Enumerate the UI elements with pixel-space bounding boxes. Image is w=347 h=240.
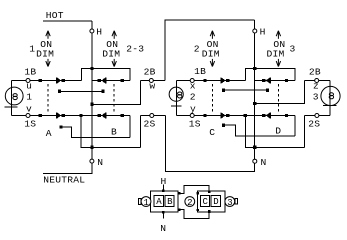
svg-text:2: 2 <box>187 198 193 208</box>
arrow ON up (switch B) <box>112 31 116 39</box>
diode D-B1 wire <box>92 80 130 82</box>
node switch B contact bottom-left <box>98 114 101 117</box>
wire 1S (right) <box>176 114 294 116</box>
node switch B contact bottom-right <box>121 114 124 117</box>
svg-text:DIM: DIM <box>36 49 54 60</box>
diode D-B1 <box>101 78 105 84</box>
node switch A input bottom <box>39 114 42 117</box>
node switch A contact bottom <box>62 114 65 117</box>
switch B link dashed <box>113 84 115 113</box>
wire lower link (left) <box>92 81 140 105</box>
wire switch C bottom curl <box>223 125 294 136</box>
svg-text:H: H <box>96 27 102 38</box>
svg-text:1: 1 <box>26 91 32 102</box>
svg-text:DIM: DIM <box>267 49 285 60</box>
terminal H (left) <box>90 29 94 33</box>
diode D-C1 <box>220 77 221 83</box>
diode D-B2 <box>101 113 105 119</box>
wire lamp I2 vertical <box>175 81 177 116</box>
arrow DIM down (switch B) <box>112 59 116 67</box>
node switch D contact bottom-left <box>262 114 265 117</box>
node switch B common <box>101 90 104 93</box>
wire 1B up-link (right) <box>246 69 295 81</box>
terminal 2B (left) <box>149 79 153 83</box>
diode D-A1 <box>56 77 57 83</box>
lamp I3 circle <box>321 86 340 105</box>
node switch D contact bottom-right <box>285 114 288 117</box>
svg-text:3: 3 <box>227 198 233 208</box>
switch C link dashed <box>211 84 213 113</box>
node switch D contact top-left <box>262 79 265 82</box>
node junction hot/lower link (left) <box>90 103 93 106</box>
arrow DIM down (switch A) <box>46 59 50 67</box>
terminal N (left) <box>90 159 94 163</box>
node switch D contact top-right <box>285 79 288 82</box>
connector cell C <box>200 195 209 206</box>
connector cell D <box>211 195 220 206</box>
wire connector bottom link <box>178 208 181 211</box>
svg-text:N: N <box>160 223 166 234</box>
terminal 2B (right) <box>315 79 319 83</box>
svg-text:B: B <box>167 197 173 207</box>
node switch D common <box>266 89 269 92</box>
wire hot vertical (left) <box>91 33 93 159</box>
lamp I1 circle <box>5 87 23 105</box>
node switch C bottom <box>222 124 225 127</box>
svg-text:H: H <box>260 27 266 38</box>
svg-text:2B: 2B <box>144 67 156 78</box>
wire 2S (right) <box>305 114 330 116</box>
svg-text:N: N <box>97 157 103 168</box>
svg-text:1S: 1S <box>24 119 36 130</box>
wire 2B (right) <box>305 80 330 82</box>
svg-text:2B: 2B <box>309 66 321 77</box>
svg-text:A: A <box>46 128 52 139</box>
terminal 2S (left) <box>150 113 154 117</box>
switch D link dashed <box>277 84 279 113</box>
terminal H (right) <box>253 29 257 33</box>
diode D-D1 wire <box>255 80 295 82</box>
node junction hot/bottom link (left) <box>90 146 93 149</box>
arrow DIM down (switch D) <box>276 59 280 67</box>
svg-text:3: 3 <box>290 44 296 55</box>
node junction hot/upper link (right) <box>253 67 256 70</box>
wire H tick (connector) <box>162 185 164 192</box>
svg-text:D: D <box>213 197 219 207</box>
node switch C common <box>222 89 225 92</box>
wire 2B to top feed <box>165 20 255 81</box>
lamp I2 circle <box>169 87 183 101</box>
connector socket 2 <box>185 197 195 207</box>
wire 1S to bottom link (right) <box>245 115 304 147</box>
svg-text:3: 3 <box>313 91 319 102</box>
svg-text:z: z <box>313 81 319 92</box>
wire 1S (left) <box>12 114 131 116</box>
node switch A common <box>58 90 61 93</box>
wire 2S left vertical (right) <box>304 115 306 147</box>
connector module box 2 (C D) <box>198 191 225 212</box>
connector socket 3 tab <box>235 198 237 204</box>
wire 1B (right) <box>176 80 245 82</box>
connector socket 1 <box>141 197 151 207</box>
node switch A bottom <box>59 125 62 128</box>
wire lower link (right) <box>255 81 305 104</box>
svg-text:C: C <box>203 197 209 207</box>
connector cell A <box>154 195 163 206</box>
svg-text:2-3: 2-3 <box>126 44 144 55</box>
terminal 1S (right) <box>190 113 194 117</box>
wire 1B (left) <box>12 80 82 82</box>
svg-text:w: w <box>149 81 155 92</box>
wire 2S return to neutral <box>166 115 255 171</box>
connector socket 1 tab <box>139 199 141 205</box>
svg-text:1: 1 <box>144 198 150 208</box>
svg-text:v: v <box>26 104 32 115</box>
node switch C input <box>203 79 206 82</box>
wire lamp I1 vertical <box>11 81 13 116</box>
wire 1S to bottom link (left) <box>81 115 141 147</box>
arrow ON up (switch C) <box>210 31 214 39</box>
wire middle bar (left) <box>60 90 104 92</box>
svg-text:B: B <box>111 127 117 138</box>
terminal 1B (right) <box>190 79 194 83</box>
svg-text:D: D <box>275 125 281 136</box>
svg-text:2S: 2S <box>144 119 156 130</box>
wire N to neutral bus <box>43 163 92 173</box>
terminal 1S (left) <box>26 113 30 117</box>
node switch B contact top-left <box>98 79 101 82</box>
svg-text:1B: 1B <box>24 67 36 78</box>
connector module box 1 (A B) <box>150 191 177 212</box>
node junction 1S/bottom link (left) <box>79 114 82 117</box>
node junction 1S/bottom link (right) <box>244 114 247 117</box>
node switch C input bottom <box>203 114 206 117</box>
arrow ON up (switch D) <box>276 31 280 39</box>
svg-text:1B: 1B <box>194 66 206 77</box>
lamp I1 base <box>5 106 18 108</box>
svg-text:N: N <box>261 157 267 168</box>
arrow ON up (switch A) <box>46 31 50 39</box>
svg-text:1: 1 <box>29 44 35 55</box>
wire hot vertical (right) <box>254 33 256 159</box>
node junction hot/bottom link (right) <box>253 146 256 149</box>
wire 1B up-link (left) <box>82 69 131 81</box>
svg-text:DIM: DIM <box>102 49 120 60</box>
svg-text:A: A <box>156 197 162 207</box>
diode D-D2 <box>266 113 270 119</box>
connector module box 2 left nubs <box>196 192 198 194</box>
wire 2B (left) <box>141 80 166 82</box>
wire switch A bottom curl <box>61 127 130 138</box>
wire 2S (left) <box>141 114 166 116</box>
svg-text:NEUTRAL: NEUTRAL <box>43 175 85 186</box>
node junction hot/lower link (right) <box>253 102 256 105</box>
terminal 1B (left) <box>26 79 30 83</box>
wire top feed down (right) <box>254 20 256 29</box>
diode D-A2 <box>56 112 57 118</box>
svg-text:2: 2 <box>190 91 196 102</box>
wire hot feed down (left) <box>91 21 93 29</box>
connector cell B <box>165 195 174 206</box>
diode D-D1 <box>266 78 270 84</box>
switch A link dashed <box>47 84 49 113</box>
lamp I2 base <box>171 105 181 107</box>
svg-text:C: C <box>209 127 215 138</box>
node switch C contact bottom <box>226 114 229 117</box>
node junction hot/upper link (left) <box>90 67 93 70</box>
wire 1S right down (left) <box>129 115 131 137</box>
terminal 2S (right) <box>315 113 319 117</box>
wire 2S left vertical (left) <box>140 115 142 147</box>
svg-text:DIM: DIM <box>202 49 220 60</box>
svg-text:2: 2 <box>194 44 200 55</box>
node switch C contact top <box>226 79 229 82</box>
diode D-C2 <box>220 112 221 118</box>
terminal N (right) <box>253 159 257 163</box>
wire N tick (connector) <box>162 212 164 219</box>
wire connector top link <box>178 192 181 195</box>
connector socket 3 <box>225 197 235 207</box>
svg-text:y: y <box>190 104 196 115</box>
wire middle bar (right) <box>224 89 268 91</box>
svg-text:HOT: HOT <box>46 10 64 21</box>
node switch B contact top-right <box>121 79 124 82</box>
arrow DIM down (switch C) <box>210 59 214 67</box>
svg-text:1S: 1S <box>189 119 201 130</box>
wire lamp I3 vertical <box>329 81 331 116</box>
lamp I3 base <box>323 105 337 107</box>
svg-text:2S: 2S <box>308 119 320 130</box>
wire 1S right down (right) <box>294 115 296 136</box>
node switch A input <box>39 79 42 82</box>
wire HOT underline <box>43 20 92 22</box>
node switch A contact top <box>62 79 65 82</box>
